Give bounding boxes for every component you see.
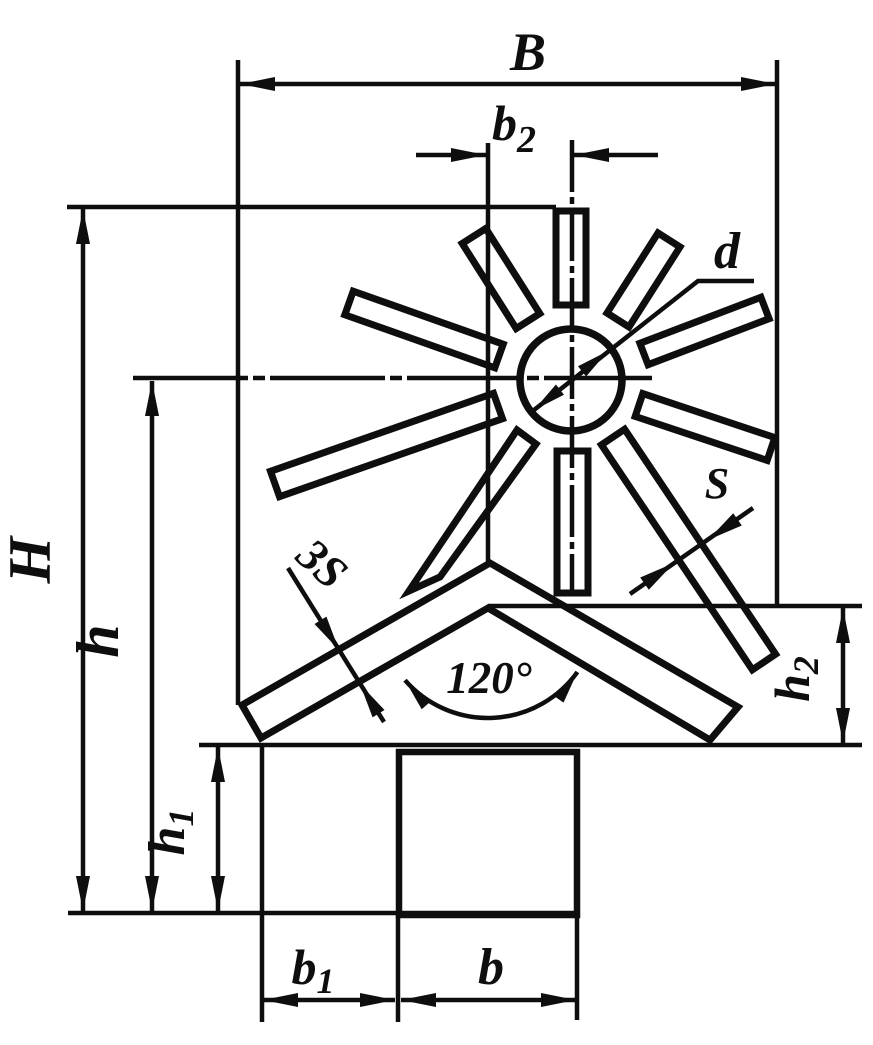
fin top vertical	[556, 211, 586, 305]
center line horizontal / extension h	[133, 376, 652, 381]
svg-text:d: d	[714, 223, 741, 280]
dimension S (fin thickness)	[630, 508, 753, 594]
dimension h2	[841, 608, 846, 743]
leader d with diameter arrows	[534, 281, 754, 410]
dimension H	[81, 209, 86, 911]
base line bottom	[68, 911, 578, 916]
fin bottom vertical	[557, 451, 588, 593]
svg-text:h: h	[65, 624, 131, 657]
extension line b2 left	[486, 143, 491, 562]
extension line B right	[775, 60, 780, 607]
fin 4:30	[601, 429, 775, 670]
svg-text:120°: 120°	[446, 653, 532, 703]
dimension b	[401, 998, 576, 1003]
arc 120 degrees	[405, 672, 577, 718]
svg-text:B: B	[509, 22, 546, 82]
fin 3 o'clock	[635, 394, 775, 461]
extension line B left	[236, 60, 241, 705]
extension line below square middle	[396, 915, 401, 1022]
extension line h1 top (top of base squares)	[199, 743, 862, 748]
svg-text:S: S	[705, 459, 729, 508]
dimension B	[240, 82, 776, 87]
fin 2 o'clock	[640, 297, 769, 364]
fin 7:30 pointed	[409, 430, 536, 591]
svg-text:H: H	[0, 534, 63, 584]
extension line below square left	[260, 745, 265, 1022]
dimension b2	[416, 153, 486, 158]
square b (thick)	[399, 752, 577, 915]
fin 10 o'clock	[345, 291, 503, 368]
extension line below square right	[575, 915, 580, 1020]
dimension b1	[263, 998, 395, 1003]
chevron base plate 120deg	[242, 563, 738, 740]
fin 8:30	[271, 393, 503, 496]
dimension h1	[216, 747, 221, 911]
center line vertical (b2 right)	[570, 140, 575, 592]
fin 11 o'clock	[462, 229, 540, 329]
dimension 3S (base plate thickness)	[288, 568, 384, 722]
extension line h2 top	[488, 604, 862, 609]
hub circle d	[520, 329, 622, 431]
svg-text:b: b	[478, 939, 504, 996]
extension line H top	[67, 205, 556, 210]
dimension h	[150, 381, 155, 911]
fin 1 o'clock	[607, 233, 680, 327]
